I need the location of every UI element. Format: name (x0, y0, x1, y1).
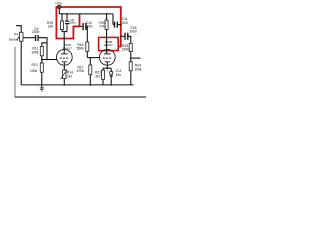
svg-text:100n: 100n (130, 29, 138, 33)
svg-text:220n: 220n (85, 25, 93, 29)
svg-text:12AU7: 12AU7 (103, 43, 113, 47)
svg-text:+UB1: +UB1 (55, 2, 63, 6)
svg-text:100k: 100k (134, 67, 142, 71)
svg-text:220k: 220k (122, 48, 130, 52)
svg-text:470k: 470k (77, 69, 85, 73)
svg-text:10u: 10u (116, 73, 122, 77)
svg-text:100n: 100n (32, 30, 40, 34)
svg-text:2k7: 2k7 (67, 74, 72, 78)
svg-text:22k: 22k (48, 24, 54, 28)
svg-text:22n: 22n (122, 21, 128, 25)
svg-text:P4: P4 (14, 32, 18, 36)
svg-text:100k: 100k (31, 51, 39, 55)
svg-text:100u: 100u (69, 21, 76, 25)
svg-text:560k: 560k (77, 47, 85, 51)
svg-text:100k: 100k (30, 69, 38, 73)
svg-text:12AU7: 12AU7 (62, 46, 72, 50)
svg-text:+: + (106, 69, 108, 73)
svg-text:2k7: 2k7 (95, 75, 100, 79)
svg-text:R13: R13 (31, 63, 37, 67)
svg-text:27k: 27k (100, 25, 106, 29)
svg-text:500log: 500log (9, 37, 18, 41)
